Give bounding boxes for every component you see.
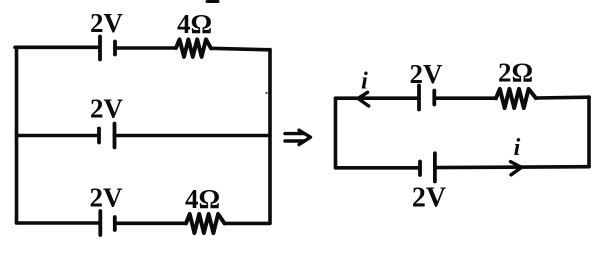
- svg-text:2V: 2V: [90, 183, 124, 213]
- resistor R3 2ohm right top: [496, 89, 536, 108]
- wire top branch left segment: [15, 45, 100, 49]
- wire top branch right segment: [211, 48, 270, 50]
- resistor R1 4ohm top branch: [176, 39, 211, 56]
- wire top branch middle segment: [115, 46, 176, 50]
- wire right top branch left segment: [336, 96, 420, 100]
- svg-text:4Ω: 4Ω: [177, 9, 212, 39]
- wire right top branch right segment: [536, 95, 589, 99]
- wire middle branch left segment: [17, 134, 100, 138]
- wire right bottom branch right segment: [435, 165, 589, 170]
- svg-text:4Ω: 4Ω: [185, 184, 220, 214]
- implies arrow symbol: [285, 130, 311, 144]
- wire left circuit left vertical: [15, 48, 19, 224]
- current arrow i pointing left on top wire: [358, 92, 369, 106]
- wire right top branch middle segment: [434, 96, 496, 100]
- stray mark top edge: [207, 0, 218, 3]
- battery V4 2V right top: [419, 86, 434, 110]
- wire bottom branch right segment: [225, 222, 271, 226]
- battery V3 2V bottom branch: [100, 211, 115, 235]
- svg-text:2V: 2V: [410, 59, 444, 89]
- svg-text:2Ω: 2Ω: [498, 58, 533, 88]
- battery V5 2V right bottom: [420, 153, 435, 181]
- wire middle branch right segment: [115, 134, 271, 138]
- current arrow i pointing right on bottom wire: [511, 162, 522, 175]
- wire right bottom branch left segment: [336, 166, 421, 170]
- wire right circuit left vertical: [334, 98, 338, 168]
- svg-text:i: i: [514, 135, 521, 161]
- svg-text:2V: 2V: [90, 8, 124, 38]
- stray dot: [265, 92, 267, 94]
- battery V1 2V top branch: [100, 37, 115, 60]
- wire bottom branch middle segment: [115, 222, 186, 226]
- svg-text:2V: 2V: [90, 94, 124, 124]
- svg-text:2V: 2V: [412, 183, 446, 214]
- battery V2 2V middle branch: [99, 124, 115, 148]
- wire right circuit right vertical: [587, 97, 591, 167]
- resistor R2 4ohm bottom branch: [186, 214, 225, 233]
- wire left circuit right vertical: [268, 50, 272, 224]
- svg-text:i: i: [361, 69, 368, 95]
- wire bottom branch left segment: [17, 221, 101, 225]
